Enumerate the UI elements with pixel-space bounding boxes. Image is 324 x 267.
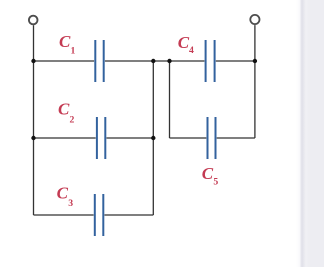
capacitor C1 plates — [95, 40, 103, 82]
junction node: left / C1 row — [31, 59, 35, 63]
wire: middle row segment C2 to mid-left node — [107, 137, 154, 139]
svg-text:C: C — [57, 183, 69, 202]
terminal T2 (top-right open circle) — [250, 15, 259, 24]
junction node: right / C4 row — [253, 59, 257, 63]
wire: top row segment C1 to C4 — [105, 60, 204, 62]
junction node: mid-left / C2 row — [151, 136, 155, 140]
capacitor C4 plates — [206, 40, 215, 82]
wire: C5 row left segment — [170, 137, 207, 139]
svg-text:2: 2 — [70, 114, 75, 125]
junction node: left / C2 row — [31, 136, 35, 140]
wire: bottom row left segment to C3 — [34, 214, 94, 216]
svg-text:3: 3 — [68, 198, 73, 209]
wire: C5 row right segment — [217, 137, 255, 139]
wire: mid-right vertical (left side of C4/C5 loop) — [169, 61, 171, 138]
svg-text:C: C — [58, 100, 70, 119]
label C1 — [59, 32, 76, 57]
capacitor C3 plates — [95, 194, 104, 236]
label C3 — [57, 183, 74, 209]
right sidebar panel — [310, 0, 324, 267]
label C5 — [202, 164, 219, 188]
junction node: mid-right / C4 row — [167, 59, 171, 63]
junction node: mid-left / C1 row — [151, 59, 155, 63]
svg-text:C: C — [202, 164, 214, 183]
label C2 — [58, 100, 75, 126]
wire: bottom row segment C3 to mid-left vertical — [105, 214, 154, 216]
capacitor C5 plates — [208, 117, 216, 159]
capacitor C2 plates — [97, 117, 105, 159]
svg-text:1: 1 — [71, 46, 76, 57]
wire: mid-left vertical (node between C1 row and C3 row) — [152, 61, 154, 215]
wire: left vertical from T1 down to bottom row — [33, 25, 35, 215]
svg-text:C: C — [59, 32, 71, 51]
svg-text:5: 5 — [213, 177, 218, 188]
terminal T1 (top-left open circle) — [29, 16, 38, 25]
svg-text:4: 4 — [189, 45, 194, 56]
wire: right vertical from T2 down to C5 row — [254, 25, 256, 138]
wire: top row left segment to C1 — [34, 60, 95, 62]
svg-text:C: C — [178, 33, 190, 52]
label C4 — [178, 33, 194, 56]
wire: top row segment C4 to right node — [216, 60, 255, 62]
wire: middle row left segment to C2 — [34, 137, 96, 139]
